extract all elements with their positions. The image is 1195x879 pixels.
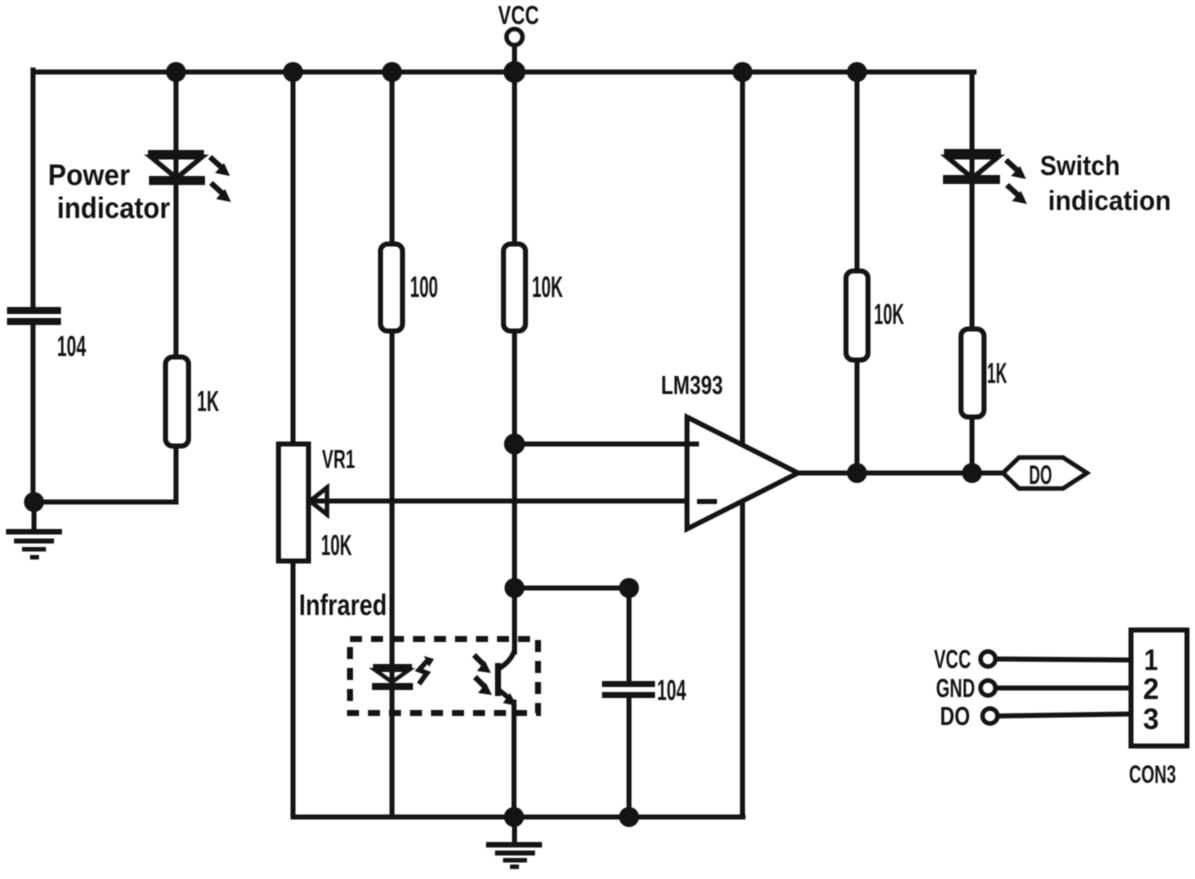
capacitor C2 104 plates [602,681,655,698]
svg-text:indicator: indicator [57,192,170,225]
node C2-top junction [619,578,639,598]
wire VCC stub [512,45,517,72]
wire R4 to output [855,360,860,473]
wire R1 bottom [174,446,179,502]
svg-text:104: 104 [657,675,686,707]
wire node A down to node B [512,444,517,588]
IR LED lightning emission [419,656,434,684]
svg-text:3: 3 [1143,703,1159,736]
node A junction [504,434,525,455]
potentiometer VR1 body [279,444,309,561]
svg-text:2: 2 [1143,673,1159,706]
wire rail to R4-10K [855,72,860,271]
svg-text:DO: DO [1029,460,1052,490]
LED D1 emission arrows [210,157,231,202]
ground left [6,502,62,560]
svg-text:100: 100 [410,271,438,304]
wire R2 to IR LED [390,331,395,817]
wire op-amp output to DO [798,471,1003,476]
node B junction [505,578,525,598]
potentiometer VR1 wiper arrow [310,488,327,515]
phototransistor incident light arrows [474,655,492,695]
ground bottom center [486,817,542,869]
node bottom rail junctions [504,807,524,827]
wire rail corner to LED2 [970,72,975,329]
wire R3 to node A [512,331,517,444]
wire rail to R3-10K [512,72,517,244]
node ground-left junction [24,492,44,512]
svg-text:indication: indication [1048,185,1171,216]
emitter lead with arrow [499,690,510,699]
wire rail down through op-amp to bottom rail [740,72,745,817]
svg-text:VR1: VR1 [322,444,355,474]
resistor R3 10K [504,244,526,331]
svg-text:DO: DO [940,701,970,731]
wire top rail [33,70,974,75]
wire C1 to ground node [31,324,36,502]
svg-text:Infrared: Infrared [299,589,387,622]
wire R5 to output [970,417,975,473]
base bar [495,663,501,696]
svg-text:Power: Power [48,159,130,192]
wire rail to LED1 [174,72,179,357]
svg-text:VCC: VCC [934,644,971,674]
svg-text:1K: 1K [987,358,1007,390]
wire node B down to phototransistor [512,588,517,652]
wire bottom rail [293,815,743,820]
resistor R1 1K [166,357,189,446]
wire node A to plus input [515,442,692,447]
resistor R2 100 [381,244,403,331]
svg-text:Switch: Switch [1040,150,1120,181]
wire VR1 to bottom rail [291,561,296,817]
connector CON3 [934,630,1187,789]
wire left drop to C1 [31,70,36,308]
svg-text:10K: 10K [874,299,904,331]
svg-text:GND: GND [936,673,975,703]
junction dots on top rail [166,61,867,83]
wire phototransistor emitter to bottom rail [512,702,517,817]
wire rail to VR1 [291,72,296,444]
op-amp U1 triangle [687,417,798,529]
LED D2 switch indication [943,149,1001,184]
svg-text:1K: 1K [197,386,219,418]
wire rail to R2-100 [390,72,395,244]
wire VR1 wiper to minus input [311,499,691,504]
IR detector dashed box [350,639,538,713]
phototransistor Q1 [495,650,517,706]
DO output flag [1003,458,1087,489]
svg-text:CON3: CON3 [1129,761,1176,789]
op-amp minus sign [697,499,717,504]
svg-text:10K: 10K [321,530,352,562]
svg-text:VCC: VCC [498,0,539,30]
connector body [1131,630,1187,746]
wire node B to C2 [515,586,630,591]
resistor R4 10K [846,271,868,360]
capacitor C1 104 plates [7,307,61,325]
op-amp plus input stub [687,442,699,447]
IR LED inside box [372,664,413,690]
wire ground node to R-1K bottom [34,500,176,505]
LED D1 power indicator [148,150,205,185]
LED D2 emission arrows [1006,160,1027,204]
node output junctions [847,463,867,483]
svg-text:104: 104 [57,331,86,363]
svg-text:10K: 10K [532,271,563,304]
collector lead [500,650,515,668]
wire C2 bottom [627,698,632,817]
resistor R5 1K [961,329,984,417]
svg-text:LM393: LM393 [661,370,723,400]
wire C2 top [627,588,632,681]
